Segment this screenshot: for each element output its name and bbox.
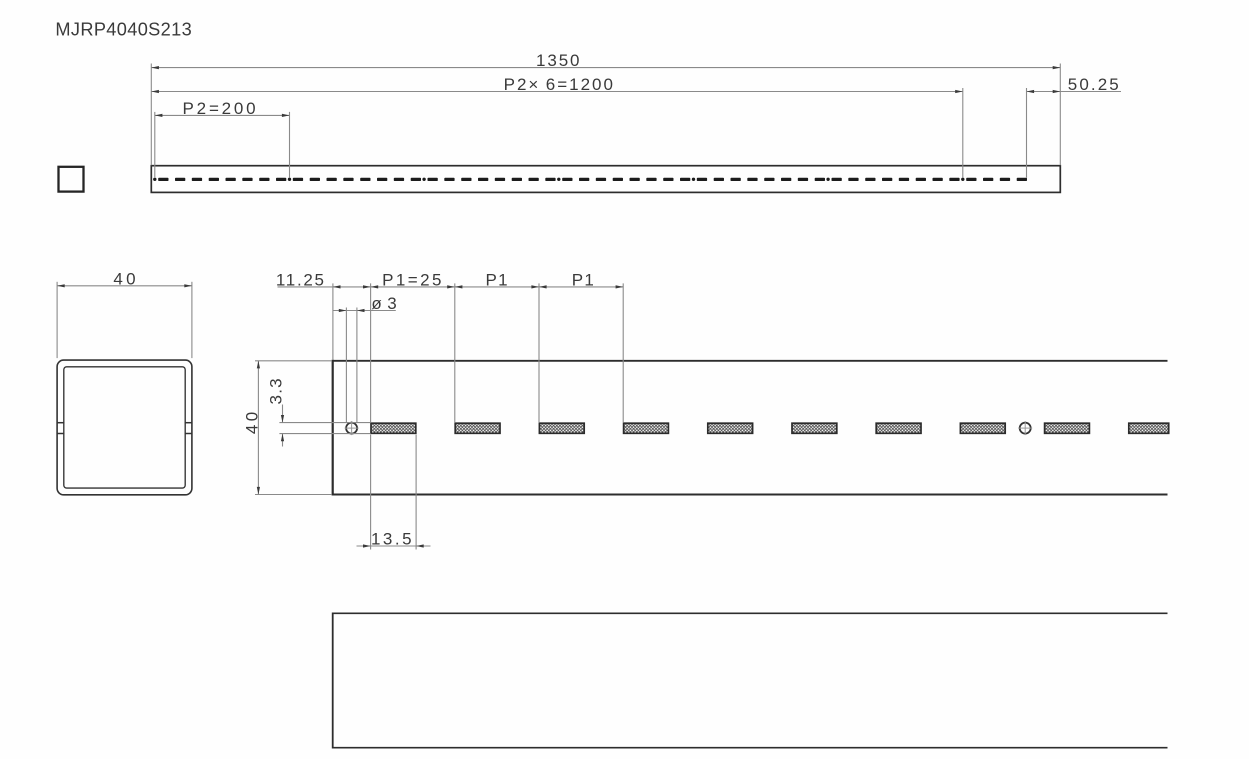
middle view: hole 2 (φ3) with center cross — [1020, 423, 1031, 434]
dimension 50.25 (end distance) — [1027, 75, 1122, 178]
cross-section: seam/slot tick marks right — [185, 422, 193, 424]
svg-text:P1: P1 — [486, 271, 509, 290]
middle view: bar outline (open right end) — [333, 360, 1168, 362]
dimension P2=200 (hole pitch) — [155, 99, 290, 178]
svg-text:40: 40 — [113, 269, 139, 288]
svg-text:P2× 6=1200: P2× 6=1200 — [504, 75, 615, 94]
dimension P1=25 — [371, 271, 455, 423]
cross-section: outer square 40x40 rounded — [57, 360, 192, 495]
dimension 3.3 (slot width, vertical) — [266, 377, 370, 446]
svg-text:P1: P1 — [572, 271, 595, 290]
dimension P1 (second) — [455, 271, 539, 423]
middle view: hole 1 (φ3) with center cross — [346, 423, 357, 434]
cross-section: seam/slot tick marks left — [57, 422, 65, 424]
svg-text:3.3: 3.3 — [266, 377, 285, 404]
dimension φ3 (hole diameter) — [333, 294, 398, 422]
svg-text:MJRP4040S213: MJRP4040S213 — [55, 19, 192, 39]
svg-text:P2=200: P2=200 — [183, 99, 259, 118]
cross-section: inner wall square — [64, 367, 185, 488]
small square: end view symbol of tube — [59, 167, 84, 192]
svg-text:13.5: 13.5 — [371, 530, 414, 549]
dimension 13.5 (slot length) — [357, 435, 431, 550]
svg-text:11.25: 11.25 — [276, 271, 326, 290]
svg-text:1350: 1350 — [536, 51, 581, 70]
dimension P1 (third) — [539, 271, 623, 423]
top view: bar outline (1350 long, plan view) — [151, 166, 1060, 193]
dimension 11.25 — [276, 271, 371, 360]
dimension P2×6=1200 — [151, 75, 963, 178]
dimension 1350 (overall length) — [151, 51, 1060, 165]
dimension 40 (bar width, vertical) — [243, 361, 332, 495]
svg-text:50.25: 50.25 — [1068, 75, 1121, 94]
svg-text:P1=25: P1=25 — [382, 271, 444, 290]
bottom view: bar outline (open right end) — [333, 612, 1168, 614]
svg-text:40: 40 — [243, 408, 262, 434]
middle view: 10 hatched slots — [371, 423, 1169, 433]
dimension 40 (cross-section width) — [57, 269, 192, 358]
top view: slot row (dashes = slots, dots = holes) — [153, 178, 1027, 181]
